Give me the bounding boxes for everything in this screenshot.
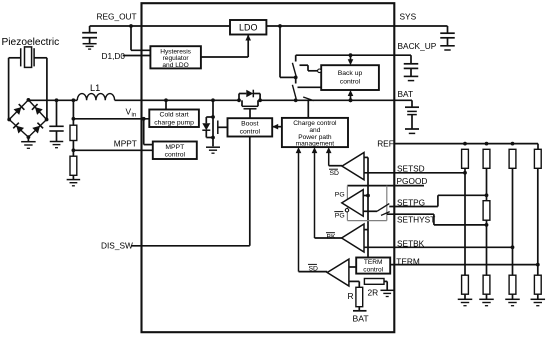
svg-text:L1: L1	[90, 83, 100, 93]
svg-text:in: in	[132, 113, 137, 119]
svg-text:SD: SD	[309, 265, 319, 272]
svg-text:SETHYST: SETHYST	[397, 215, 435, 225]
svg-text:D1,D0: D1,D0	[102, 51, 126, 61]
svg-text:control: control	[240, 128, 261, 135]
svg-text:MPPT: MPPT	[114, 139, 137, 149]
svg-text:LDO: LDO	[239, 22, 258, 32]
svg-text:PG: PG	[335, 213, 345, 220]
svg-text:R: R	[348, 291, 354, 301]
svg-text:DIS_SW: DIS_SW	[101, 241, 133, 251]
svg-text:Cold start: Cold start	[160, 112, 189, 119]
svg-text:TERM: TERM	[364, 259, 383, 266]
svg-text:charge pump: charge pump	[154, 119, 194, 126]
svg-text:MPPT: MPPT	[165, 144, 184, 151]
svg-text:REF: REF	[377, 139, 394, 149]
svg-text:control: control	[165, 152, 186, 159]
svg-text:SYS: SYS	[400, 11, 417, 21]
svg-text:BAT: BAT	[398, 89, 414, 99]
svg-text:SD: SD	[330, 170, 340, 177]
svg-text:Back up: Back up	[338, 70, 363, 77]
svg-text:and LDO: and LDO	[162, 62, 188, 69]
svg-text:management: management	[296, 141, 335, 148]
svg-text:2R: 2R	[368, 287, 379, 297]
svg-text:Boost: Boost	[241, 121, 258, 128]
svg-text:PG: PG	[335, 191, 345, 198]
svg-text:BK: BK	[327, 234, 337, 241]
svg-text:control: control	[363, 266, 383, 273]
svg-text:PGOOD: PGOOD	[397, 176, 428, 186]
svg-text:BAT: BAT	[353, 313, 370, 323]
svg-text:BACK_UP: BACK_UP	[398, 41, 437, 51]
svg-text:control: control	[340, 78, 361, 85]
svg-text:REG_OUT: REG_OUT	[97, 12, 137, 22]
